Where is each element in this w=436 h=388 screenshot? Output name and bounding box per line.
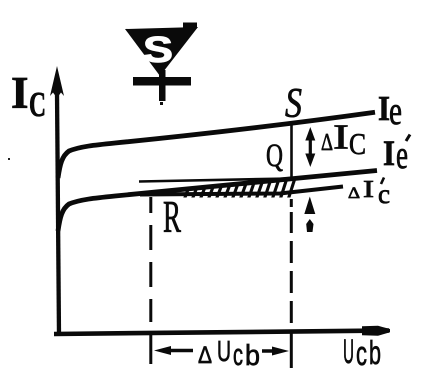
svg-text:C: C <box>349 126 366 161</box>
svg-text:b: b <box>369 334 381 371</box>
svg-text:U: U <box>343 333 354 371</box>
svg-text:I: I <box>333 118 349 157</box>
svg-text:C: C <box>29 85 46 124</box>
svg-text:c: c <box>233 337 243 372</box>
svg-text:c: c <box>356 335 367 373</box>
svg-text:Δ: Δ <box>321 130 333 156</box>
svg-text:U: U <box>217 336 231 368</box>
svg-text:c: c <box>378 179 390 209</box>
svg-text:I: I <box>11 68 29 118</box>
svg-text:S: S <box>143 29 173 70</box>
svg-text:e: e <box>389 88 402 133</box>
svg-text:R: R <box>163 192 181 242</box>
svg-text:I: I <box>363 177 374 203</box>
svg-text:b: b <box>245 340 260 372</box>
svg-text:Δ: Δ <box>348 185 360 202</box>
svg-text:Δ: Δ <box>198 342 212 369</box>
svg-text:I: I <box>383 133 395 173</box>
svg-text:S: S <box>285 81 302 127</box>
svg-text:Q: Q <box>266 138 283 174</box>
